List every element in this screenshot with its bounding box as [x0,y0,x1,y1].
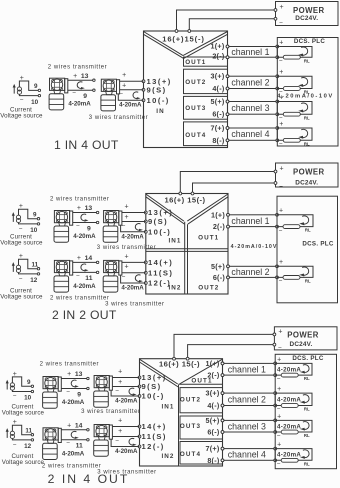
svg-text:4-20mA: 4-20mA [73,233,96,240]
svg-text:4(-): 4(-) [207,401,220,410]
svg-text:−: − [119,91,123,98]
svg-text:12(-): 12(-) [148,279,171,288]
svg-text:Voltage source: Voltage source [2,409,45,416]
svg-text:12: 12 [30,277,38,284]
svg-text:+: + [277,386,281,393]
svg-text:DCS. PLC: DCS. PLC [292,355,324,362]
svg-text:9(S): 9(S) [142,382,162,391]
svg-text:+: + [279,259,283,266]
svg-text:3(+): 3(+) [211,72,225,81]
svg-text:4-20mA: 4-20mA [62,399,85,406]
svg-text:1(+): 1(+) [206,359,220,368]
svg-text:+: + [124,203,128,210]
svg-text:OUT4: OUT4 [185,132,206,139]
svg-text:RL: RL [304,407,310,412]
svg-text:8(-): 8(-) [212,136,225,145]
svg-text:10(-): 10(-) [142,392,165,401]
svg-text:POWER: POWER [293,168,324,177]
svg-text:−: − [122,223,126,230]
svg-text:OUT3: OUT3 [185,105,206,112]
svg-text:4-20mA/0-10V: 4-20mA/0-10V [231,244,278,250]
svg-text:16(+) 15(-): 16(+) 15(-) [159,359,200,368]
svg-text:4-20mA: 4-20mA [277,423,301,430]
svg-text:−: − [13,441,17,448]
svg-text:9: 9 [83,93,87,100]
svg-text:−: − [20,97,24,104]
svg-text:4-20mA: 4-20mA [68,101,91,108]
svg-text:+: + [277,356,281,363]
svg-text:6(-): 6(-) [212,110,225,119]
svg-text:DC24V.: DC24V. [290,341,313,348]
svg-text:−: − [76,222,80,229]
svg-text:OUT2: OUT2 [185,79,206,86]
svg-text:−: − [72,90,76,97]
svg-text:−: − [279,141,283,148]
svg-text:−: − [19,225,23,232]
svg-text:−: − [66,440,70,447]
svg-text:5(+): 5(+) [211,97,225,106]
svg-text:+: + [122,72,126,79]
svg-text:channel 3: channel 3 [231,103,269,113]
svg-text:OUT4: OUT4 [180,451,201,458]
svg-text:−: − [122,274,126,281]
svg-text:OUT2: OUT2 [180,397,201,404]
svg-text:RL: RL [304,433,310,438]
svg-text:+: + [124,253,128,260]
svg-text:14(+): 14(+) [142,422,167,431]
svg-text:11: 11 [31,261,38,268]
svg-text:channel 1: channel 1 [231,216,269,226]
svg-text:3 wires transmitter: 3 wires transmitter [97,245,156,251]
svg-text:−: − [279,227,283,234]
svg-text:OUT1: OUT1 [198,235,219,242]
svg-text:11: 11 [25,427,32,434]
svg-text:+: + [279,166,283,173]
svg-text:+: + [73,73,77,80]
svg-text:+: + [279,4,283,11]
svg-text:Voltage source: Voltage source [0,112,43,119]
svg-text:4-20mA: 4-20mA [121,233,144,240]
svg-text:Voltage source: Voltage source [2,459,45,466]
svg-text:DC24V.: DC24V. [295,15,318,22]
svg-text:−: − [278,345,282,352]
svg-text:8(-): 8(-) [207,456,220,465]
svg-text:10(-): 10(-) [148,227,171,236]
svg-text:channel 2: channel 2 [231,77,269,87]
svg-text:POWER: POWER [287,330,318,339]
svg-text:+: + [124,214,128,221]
svg-text:14: 14 [85,255,93,262]
svg-text:RL: RL [304,58,310,63]
svg-text:RL: RL [304,141,310,146]
svg-text:2 wires transmitter: 2 wires transmitter [48,65,107,71]
svg-text:RL: RL [304,461,310,466]
svg-text:IN2: IN2 [161,453,174,460]
svg-text:9: 9 [34,83,38,90]
svg-text:1(+): 1(+) [211,42,225,51]
svg-text:+: + [77,255,81,262]
svg-text:3 wires transmitter: 3 wires transmitter [105,301,164,307]
svg-text:11: 11 [85,275,92,282]
svg-text:2 wires transmitter: 2 wires transmitter [40,361,99,367]
svg-text:3 wires transmitter: 3 wires transmitter [81,409,140,415]
svg-text:DCS. PLC: DCS. PLC [294,38,326,45]
svg-text:RL: RL [305,279,311,284]
svg-text:4-20mA: 4-20mA [119,102,142,109]
svg-text:9(S): 9(S) [147,85,167,94]
svg-text:14(+): 14(+) [148,258,173,267]
svg-text:2(-): 2(-) [212,51,225,60]
svg-text:2(-): 2(-) [213,222,226,231]
svg-text:4-20mA/0-10V: 4-20mA/0-10V [277,93,334,99]
svg-text:RL: RL [304,376,310,381]
svg-text:IN1: IN1 [161,404,174,411]
svg-text:14: 14 [75,422,83,429]
svg-text:−: − [277,376,281,383]
svg-text:4-20mA: 4-20mA [277,396,301,403]
svg-text:10(-): 10(-) [147,96,170,105]
svg-text:channel 1: channel 1 [231,47,269,57]
svg-text:channel 4: channel 4 [228,450,266,460]
svg-text:2(-): 2(-) [207,371,220,380]
svg-text:−: − [277,433,281,440]
svg-text:+: + [279,121,283,128]
svg-text:4-20mA: 4-20mA [277,366,301,373]
svg-text:−: − [76,272,80,279]
svg-text:13: 13 [81,73,89,80]
svg-text:12: 12 [24,443,32,450]
svg-text:+: + [279,208,283,215]
svg-text:12(-): 12(-) [142,442,165,451]
svg-text:+: + [118,368,122,375]
svg-text:11(S): 11(S) [148,268,173,277]
svg-text:IN1: IN1 [168,238,181,245]
svg-text:DC24V.: DC24V. [295,179,318,186]
svg-text:2 wires transmitter: 2 wires transmitter [42,463,101,469]
svg-text:−: − [66,388,70,395]
svg-text:OUT1: OUT1 [185,59,206,66]
svg-text:Voltage source: Voltage source [0,239,43,246]
svg-text:13: 13 [75,371,83,378]
svg-text:6(-): 6(-) [213,273,226,282]
svg-text:4-20mA: 4-20mA [62,450,85,457]
svg-text:1 IN 4 OUT: 1 IN 4 OUT [54,138,119,152]
svg-text:4-20mA: 4-20mA [121,284,144,291]
svg-text:4-20mA: 4-20mA [115,448,138,455]
svg-text:+: + [279,39,283,46]
svg-text:+: + [118,379,122,386]
svg-text:−: − [115,388,119,395]
svg-text:+: + [278,328,282,335]
svg-text:+: + [277,413,281,420]
svg-text:4(-): 4(-) [212,84,225,93]
svg-text:7(+): 7(+) [211,124,225,133]
svg-text:6(-): 6(-) [207,428,220,437]
svg-text:+: + [77,205,81,212]
svg-text:13: 13 [85,205,93,212]
svg-text:3(+): 3(+) [206,389,220,398]
svg-text:+: + [279,69,283,76]
svg-text:RL: RL [304,115,310,120]
svg-text:+: + [122,82,126,89]
svg-text:3 wires transmitter: 3 wires transmitter [89,115,148,121]
svg-text:1(+): 1(+) [211,210,225,219]
svg-text:13(+): 13(+) [148,208,173,217]
svg-text:4-20mA: 4-20mA [277,452,301,459]
svg-text:2 wires transmitter: 2 wires transmitter [50,296,109,302]
svg-text:13(+): 13(+) [142,373,167,382]
svg-text:10: 10 [24,395,32,402]
svg-text:channel 4: channel 4 [231,129,269,139]
svg-text:OUT2: OUT2 [198,285,219,292]
svg-text:16(+)15(-): 16(+)15(-) [162,34,204,43]
svg-text:POWER: POWER [293,6,324,15]
svg-text:IN: IN [156,108,165,115]
svg-text:channel 2: channel 2 [231,267,269,277]
svg-text:+: + [277,441,281,448]
svg-text:2 IN 4 OUT: 2 IN 4 OUT [48,472,130,486]
svg-text:−: − [277,461,281,468]
svg-text:11(S): 11(S) [142,432,167,441]
svg-text:+: + [67,371,71,378]
svg-text:5(+): 5(+) [211,262,225,271]
svg-text:−: − [279,278,283,285]
svg-text:channel 1: channel 1 [228,364,266,374]
svg-text:4-20mA: 4-20mA [73,283,96,290]
svg-text:9: 9 [87,225,91,232]
svg-text:−: − [279,183,283,190]
svg-text:+: + [118,428,122,435]
svg-text:9(S): 9(S) [148,217,168,226]
svg-text:16(+) 15(-): 16(+) 15(-) [164,196,205,205]
svg-text:9: 9 [33,211,37,218]
svg-text:−: − [115,438,119,445]
svg-text:9: 9 [27,379,31,386]
svg-text:OUT3: OUT3 [180,423,201,430]
svg-text:10: 10 [31,99,39,106]
svg-text:2 IN 2 OUT: 2 IN 2 OUT [52,308,117,322]
svg-text:−: − [279,19,283,26]
svg-text:Voltage source: Voltage source [0,293,43,300]
svg-text:+: + [67,422,71,429]
svg-text:+: + [118,417,122,424]
svg-text:RL: RL [305,228,311,233]
svg-text:channel 2: channel 2 [228,394,266,404]
svg-text:−: − [13,393,17,400]
svg-text:11: 11 [76,443,83,450]
svg-text:5(+): 5(+) [206,416,220,425]
svg-text:4-20mA: 4-20mA [115,397,138,404]
svg-text:−: − [19,275,23,282]
svg-text:DCS. PLC: DCS. PLC [302,241,334,248]
svg-text:+: + [124,264,128,271]
svg-text:9: 9 [77,391,81,398]
svg-text:−: − [279,58,283,65]
svg-text:2 wires transmitter: 2 wires transmitter [50,197,109,203]
svg-text:−: − [277,406,281,413]
svg-text:channel 3: channel 3 [228,421,266,431]
svg-text:7(+): 7(+) [206,444,220,453]
